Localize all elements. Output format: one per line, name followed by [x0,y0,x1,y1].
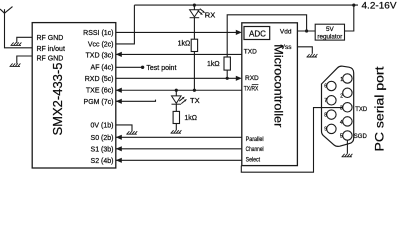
wire RF GND top to ground [17,37,32,43]
svg-text:TXD: TXD [355,107,368,113]
pull-up feed wire from Vdd node [227,15,306,57]
regulator box [315,24,344,40]
junction dot rail/supply [352,4,355,7]
TXD wire [116,53,242,55]
S0 wire [116,136,242,138]
svg-text:AF (4c): AF (4c) [91,65,114,72]
DB9 pin 7 [327,96,336,105]
ground RF1 [11,42,22,45]
svg-text:TX: TX [190,96,200,105]
DB9 pin 6 [327,81,336,90]
svg-text:3: 3 [340,106,343,112]
arrow into module TXE [116,88,122,93]
antenna lead + RF in/out wire [5,13,33,48]
module SMX2-433-5 box [32,23,116,168]
svg-text:PC serial port: PC serial port [374,66,386,152]
LED TX [172,96,186,104]
all wires [5,5,359,172]
svg-text:5: 5 [340,134,343,140]
svg-text:TXE (6c): TXE (6c) [86,88,114,95]
svg-text:regulator: regulator [317,34,342,41]
arrow into module S2 [116,158,122,163]
svg-text:RXD: RXD [245,75,259,82]
S2 wire [116,159,242,161]
svg-text:1kΩ: 1kΩ [184,115,197,122]
RXD wire [116,77,237,79]
ground TX resistor [171,130,182,133]
svg-text:Test point: Test point [146,63,176,72]
svg-text:TXD: TXD [244,49,257,56]
PGM wire with stub up [116,100,156,102]
svg-text:9: 9 [324,127,327,133]
junction dot Vdd node [305,29,308,32]
svg-text:SGD: SGD [354,134,368,140]
resistor R2 1k (pull-up) [224,57,230,70]
AF wire to test point [116,66,141,68]
ground Vss [307,54,318,57]
DB9 pin 2 [343,88,352,97]
junction dot TXE / RX column [193,89,196,92]
svg-text:S2 (4b): S2 (4b) [91,158,114,165]
DB9 pin 5 [343,131,352,140]
svg-text:Select: Select [246,156,261,163]
svg-text:TXD (3c): TXD (3c) [86,52,114,59]
resistor R3 1k (TX led) [173,111,179,123]
DB9 pin 8 [327,110,336,119]
DB9 pin 1 [343,74,352,83]
DB9 pin 4 [343,117,352,126]
LED RX [190,9,204,18]
RSSI wire to ADC [116,31,237,33]
arrow into module TXD [116,52,122,57]
TX LED column wire [175,90,177,130]
serial wire micro to DB9 pin3 [241,108,342,173]
svg-text:SMX2-433-5: SMX2-433-5 [50,63,65,136]
Vss wire to ground [297,47,312,54]
arrow into module PGM [116,99,122,104]
microcontroller box [242,23,298,166]
Vdd wire to regulator [297,30,315,32]
svg-text:TX/RX: TX/RX [244,85,259,92]
svg-text:Channel: Channel [246,146,264,153]
S1 wire [116,148,242,150]
antenna [0,7,13,14]
junction dot RXD pull-up [226,77,229,80]
svg-text:S0 (2b): S0 (2b) [91,135,114,142]
svg-text:RXD (5c): RXD (5c) [85,76,114,83]
DB9 connector outline [322,66,354,146]
arrow into module S0 [116,135,122,140]
svg-text:RSSI (1c): RSSI (1c) [83,30,113,37]
Vcc rail top [134,4,358,6]
DB9 pin 3 [343,103,352,112]
junction dot TXE / TX LED [175,89,178,92]
svg-text:7: 7 [324,98,327,104]
svg-text:2: 2 [340,93,343,99]
resistor R1 1k (RX led) [191,39,197,51]
svg-text:RF GND: RF GND [37,35,64,42]
svg-text:ADC: ADC [249,30,266,39]
svg-text:Parallel: Parallel [246,136,264,143]
junction dot rail/RX column [193,4,196,7]
regulator input from supply [345,5,354,31]
DB9 pin5 to ground [346,140,348,154]
RX LED column wire [193,5,195,90]
svg-text:RF GND: RF GND [37,56,64,63]
svg-text:Vss: Vss [281,44,293,51]
ADC box [244,27,270,40]
svg-text:S1 (3b): S1 (3b) [91,146,114,153]
pull-up resistor bottom to RXD [226,70,228,78]
svg-text:1kΩ: 1kΩ [178,40,191,47]
svg-text:0V (1b): 0V (1b) [91,123,114,130]
svg-text:8: 8 [324,112,327,118]
svg-text:Vdd: Vdd [280,29,292,36]
svg-text:Vcc (2c): Vcc (2c) [88,41,114,48]
Vcc riser and stub [116,5,135,44]
TXE wire [116,89,242,91]
arrow into module S1 [116,146,122,151]
wire RF GND bottom to ground [17,56,32,64]
svg-text:RF in/out: RF in/out [37,46,65,53]
ground RF2 [10,63,21,66]
svg-text:Microcontroller: Microcontroller [272,44,286,127]
0V wire to ground [116,125,132,131]
DB9 pin 9 [327,124,336,133]
svg-text:4: 4 [340,120,343,126]
ground 0V [126,131,137,134]
svg-text:RX: RX [205,11,215,20]
svg-text:4.2-16V: 4.2-16V [362,0,397,11]
svg-text:1: 1 [340,77,343,83]
svg-text:PGM (7c): PGM (7c) [84,99,114,106]
svg-text:1kΩ: 1kΩ [207,61,220,68]
arrow into micro ADC (RSSI) [236,30,242,35]
svg-text:5V: 5V [326,26,335,33]
svg-text:6: 6 [324,84,327,90]
ground DB9 SGD [342,154,353,157]
arrow into micro RXD [236,76,242,81]
test point dot [141,66,144,69]
